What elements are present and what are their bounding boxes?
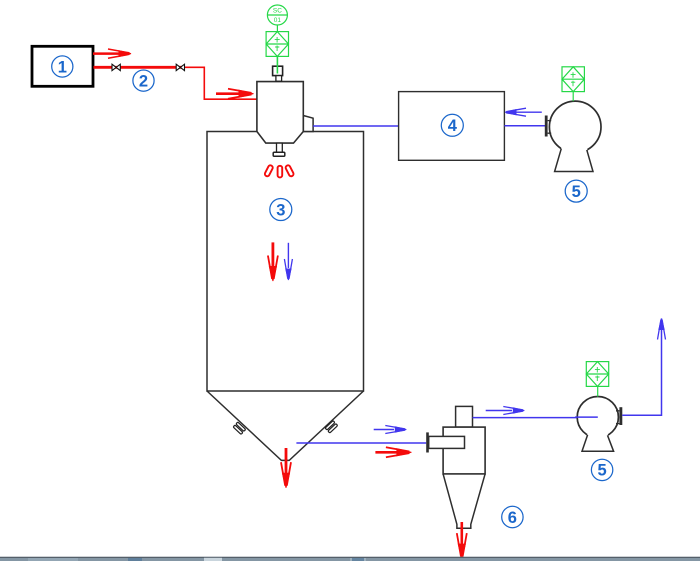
svg-text:4: 4: [448, 117, 458, 135]
svg-text:5: 5: [572, 183, 581, 201]
blue arrow into heater A5: [505, 108, 542, 116]
feed pipe thick red: [94, 66, 185, 69]
fan 5 bottom: [577, 397, 622, 452]
valve V2: [176, 64, 184, 70]
cyclone inlet pipe: [429, 436, 465, 448]
fan base: [582, 434, 614, 451]
svg-text:2: 2: [139, 72, 148, 90]
fan inlet flange: [545, 116, 548, 137]
red flow arrow A2: [216, 89, 254, 99]
air hammer right: [325, 421, 338, 433]
instrument square-diamond above atomizer: [266, 32, 288, 57]
label 2: [133, 70, 154, 91]
svg-text:01: 01: [274, 17, 282, 24]
green signal line square-to-atomizer: [276, 56, 278, 73]
svg-text:5: 5: [598, 462, 607, 480]
nozzle stem: [277, 143, 283, 152]
instrument circle SC/01: [267, 5, 287, 25]
green signal line to fan 5 bottom: [597, 386, 599, 396]
atomizer head on chamber top: [257, 82, 313, 144]
svg-text:SC: SC: [273, 8, 282, 15]
red down arrow below chamber cone: [281, 448, 291, 488]
red flow arrow A1: [93, 49, 131, 58]
cyclone cone: [443, 474, 485, 528]
fan base: [555, 148, 593, 171]
valve V1: [112, 64, 120, 70]
air hammer left: [233, 422, 246, 434]
label 4: [441, 114, 463, 136]
instrument above fan 5 top: [562, 67, 584, 92]
label 6: [502, 506, 523, 527]
pipe fan1 to heater: [504, 125, 545, 127]
cyclone inlet flange: [426, 432, 429, 452]
taskbar strip at bottom: [0, 557, 700, 561]
label 5 bottom: [591, 459, 612, 480]
hot air inlet branch: [303, 116, 313, 132]
instrument above fan 5 bottom: [586, 362, 608, 387]
spray droplets: [264, 165, 294, 178]
pipe overlay into fan 5 bottom center: [575, 416, 598, 418]
svg-text:3: 3: [276, 201, 285, 219]
red down arrow in chamber: [268, 242, 278, 281]
green signal line to fan 5 top: [572, 92, 574, 102]
atomizer motor fitting: [273, 66, 283, 75]
green signal line circle-to-square: [276, 25, 278, 32]
blue arrow A6: [374, 426, 407, 434]
fan outlet flange: [619, 407, 622, 425]
fan 5 top: [545, 101, 601, 171]
atomizer housing: [257, 82, 303, 144]
label 1: [52, 56, 73, 77]
label 5 top: [565, 180, 587, 202]
heater box 4: [399, 92, 505, 161]
label 3: [270, 199, 292, 221]
cyclone body: [443, 427, 485, 474]
feed pipe thin red elbow to dryer head: [184, 67, 257, 99]
fan casing: [577, 397, 618, 438]
cyclone gas outlet: [456, 406, 473, 427]
drying chamber 3: [207, 132, 364, 392]
exhaust pipe from cone to cyclone: [296, 442, 426, 444]
pipe cyclone to fan2: [473, 417, 598, 419]
blue arrow A9: [486, 407, 525, 415]
svg-text:1: 1: [58, 58, 67, 76]
cyclone 6: [426, 406, 485, 528]
blue up arrow A10: [658, 319, 666, 340]
exhaust outlet pipe up: [622, 319, 661, 416]
feed tank 1: [32, 46, 93, 86]
red arrow A7: [375, 447, 411, 457]
nozzle disc: [273, 152, 285, 156]
hot air pipe from heater to atomizer: [313, 125, 399, 127]
blue down arrow in chamber: [284, 243, 292, 280]
atomizer shaft neck: [276, 76, 282, 82]
chamber cone: [207, 391, 364, 460]
fan casing: [549, 101, 601, 153]
red arrow below cyclone A8: [457, 522, 467, 559]
svg-text:6: 6: [508, 509, 517, 527]
